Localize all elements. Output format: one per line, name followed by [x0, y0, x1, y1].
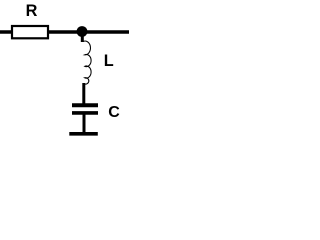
svg-text:R: R: [26, 2, 38, 20]
svg-text:L: L: [104, 52, 114, 70]
svg-text:C: C: [108, 104, 120, 121]
